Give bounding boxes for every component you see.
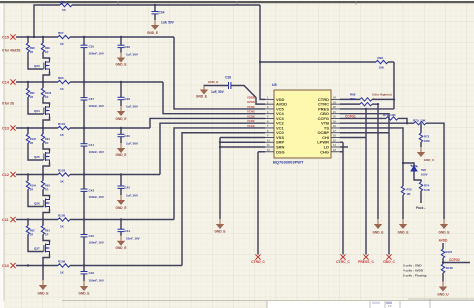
port CBO_C xyxy=(386,254,391,259)
svg-text:DSG: DSG xyxy=(276,149,285,154)
port PRESS_C xyxy=(363,254,368,259)
wire VDD top from C15 row xyxy=(34,5,60,37)
pin 20 CCFG xyxy=(331,117,340,119)
wire LD stub xyxy=(340,146,348,148)
capacitor C41 100nF 16V xyxy=(83,128,85,144)
svg-text:R71, 10K: R71, 10K xyxy=(383,113,397,117)
pin 5 VC3 xyxy=(265,117,274,119)
ground GND_E right outer xyxy=(440,219,448,229)
wire R70 to ground xyxy=(426,123,444,219)
wire cap chain to row C12 xyxy=(83,146,85,174)
svg-text:R74: R74 xyxy=(424,184,430,188)
op-amp U5 BQ7693003PWT battery monitor IC xyxy=(274,90,331,158)
svg-text:R100: R100 xyxy=(45,91,52,95)
svg-text:5V6: 5V6 xyxy=(421,168,426,172)
junction row C14 rail A xyxy=(27,81,29,83)
wire R71 down to VTB rail xyxy=(398,118,407,123)
wire C14 sense to pin VC4 xyxy=(163,82,265,114)
wire row C12 left xyxy=(16,174,58,176)
ground GND_E row C10 xyxy=(42,266,44,280)
port CTRD_C xyxy=(255,254,260,259)
wire VTB divider rail xyxy=(340,122,414,124)
svg-text:1R: 1R xyxy=(45,187,48,191)
svg-text:R94: R94 xyxy=(45,137,50,141)
pin 1 VDD xyxy=(265,98,274,100)
svg-text:1uF, 50V: 1uF, 50V xyxy=(126,105,138,109)
svg-text:Q26: Q26 xyxy=(34,202,40,206)
svg-text:Q27: Q27 xyxy=(34,247,40,251)
pin 2 AVDD xyxy=(265,103,274,105)
pin 21 CBO xyxy=(331,113,340,115)
wire VSS down to ground xyxy=(219,137,221,219)
svg-text:R101: R101 xyxy=(58,122,66,126)
svg-text:1R: 1R xyxy=(45,95,48,99)
svg-text:R106: R106 xyxy=(58,259,66,263)
wire zener to R74 xyxy=(414,172,421,183)
svg-text:GND_E: GND_E xyxy=(398,231,409,235)
svg-text:1R: 1R xyxy=(45,141,48,145)
wire CTRD select xyxy=(340,98,360,100)
svg-text:GND_E: GND_E xyxy=(196,95,207,99)
svg-text:R95: R95 xyxy=(30,91,35,95)
svg-text:GND_E: GND_E xyxy=(116,62,127,66)
wire gate link Q23 xyxy=(28,52,44,69)
resistor R99 1R balance right gap1 xyxy=(42,37,44,43)
resistor R70 10K xyxy=(414,122,426,125)
svg-text:BQ7693003PWT: BQ7693003PWT xyxy=(273,160,304,165)
junction VDD-R96 tap xyxy=(259,61,261,63)
svg-text:3 cells : GND: 3 cells : GND xyxy=(403,264,422,268)
port C11 cell input xyxy=(10,217,15,222)
svg-text:Pack -: Pack - xyxy=(416,206,425,210)
capacitor C36 1uF, 50V xyxy=(120,37,122,45)
transistor Q24 balance FET xyxy=(44,105,50,117)
junction row C14 filter cap xyxy=(120,81,122,83)
svg-text:C10: C10 xyxy=(2,264,9,268)
wire SRN xyxy=(220,146,265,148)
resistor R98 1R balance left gap1 xyxy=(27,37,29,43)
svg-text:GND_E: GND_E xyxy=(116,246,127,250)
resistor R100 1R balance right gap2 xyxy=(42,82,44,88)
wire row C11 right xyxy=(70,219,174,221)
svg-text:R105: R105 xyxy=(58,213,66,217)
pin 3 VC5 xyxy=(265,108,274,110)
junction row C11 filter cap xyxy=(120,218,122,220)
pin 6 VC2 xyxy=(265,122,274,124)
wire cap chain to row C13 xyxy=(83,100,85,128)
svg-text:VC2B: VC2B xyxy=(247,119,254,123)
wire PRES to port xyxy=(340,108,394,110)
pin 4 VC4 xyxy=(265,113,274,115)
junction row C13 cap chain xyxy=(83,127,85,129)
pin 18 TS xyxy=(331,127,340,129)
resistor R108 1K xyxy=(441,264,444,273)
wire C10 sense to pin VC0 xyxy=(182,133,265,266)
pin 23 CTRC xyxy=(331,103,340,105)
svg-text:GND_E: GND_E xyxy=(208,80,218,84)
wire C13 sense to pin VC3 xyxy=(150,118,265,128)
capacitor C42 1uF, 50V xyxy=(120,175,122,187)
wire gate link Q26 xyxy=(28,190,44,207)
wire drain Q24 xyxy=(43,97,50,105)
svg-text:1R: 1R xyxy=(30,95,33,99)
svg-text:Q23: Q23 xyxy=(34,64,40,68)
junction row C12 cap chain xyxy=(83,173,85,175)
junction row C10 rail A xyxy=(27,264,29,266)
net label CCFG1 xyxy=(340,117,386,119)
svg-text:GND_E: GND_E xyxy=(215,230,226,234)
wire top VDD rail xyxy=(72,4,260,6)
pin 13 CHG xyxy=(331,151,340,153)
resistor R68 0R xyxy=(360,98,372,101)
svg-text:C14: C14 xyxy=(2,81,10,85)
svg-text:10nF, 16V: 10nF, 16V xyxy=(126,237,140,241)
svg-text:R92: R92 xyxy=(30,229,35,233)
resistor R106 1K row C10 xyxy=(58,264,70,267)
ground GND_E under C39 xyxy=(117,106,125,116)
resistor R96 10K xyxy=(376,60,388,63)
svg-text:R70, 10K: R70, 10K xyxy=(413,119,427,123)
svg-text:0 for 4S&5S: 0 for 4S&5S xyxy=(2,49,21,53)
resistor R74 8.2K xyxy=(419,182,422,191)
svg-text:R69: R69 xyxy=(350,97,356,101)
svg-text:10M: 10M xyxy=(424,139,430,143)
svg-text:C15: C15 xyxy=(2,36,9,40)
resistor R73 10M xyxy=(420,123,422,133)
svg-text:GND_E: GND_E xyxy=(79,292,90,296)
svg-text:1R: 1R xyxy=(30,232,33,236)
capacitor C39 1uF, 50V xyxy=(120,82,122,97)
pin 9 VSS xyxy=(265,136,274,138)
port C12 cell input xyxy=(10,172,15,177)
title block xyxy=(267,301,474,308)
pin 8 VC0 xyxy=(265,132,274,134)
wire CHG rail down xyxy=(342,142,344,254)
capacitor C34 1uF 50V xyxy=(154,5,156,11)
junction SRP rail xyxy=(219,141,221,143)
svg-text:R107: R107 xyxy=(446,250,453,254)
wire drain Q27 xyxy=(43,235,50,243)
svg-text:R93: R93 xyxy=(45,184,50,188)
capacitor C38 1uF 50V xyxy=(204,85,228,87)
wire C11 sense to pin VC1 xyxy=(174,128,265,220)
wire cap chain to row C14 xyxy=(83,48,85,82)
junction row C15 rail B xyxy=(42,36,44,38)
junction row C14 cap chain xyxy=(83,81,85,83)
resistor R90 1K row C14 xyxy=(58,80,70,83)
wire CBO to port xyxy=(340,114,389,255)
svg-text:5 cells : Floating: 5 cells : Floating xyxy=(403,274,427,278)
svg-text:C38: C38 xyxy=(225,76,231,80)
capacitor C45 100nF 16V xyxy=(83,220,85,235)
svg-text:0 for 3S: 0 for 3S xyxy=(2,102,15,106)
wire AVDD stub xyxy=(442,243,444,249)
svg-text:100nF, 16V: 100nF, 16V xyxy=(89,150,104,154)
svg-text:C12: C12 xyxy=(2,173,9,177)
junction row C13 rail B xyxy=(42,127,44,129)
svg-text:R67: R67 xyxy=(58,31,64,35)
svg-text:0 (for Highest): 0 (for Highest) xyxy=(372,92,392,96)
ground GND_E for C34 xyxy=(151,20,159,30)
wire source Q24 to next row xyxy=(43,117,50,129)
svg-text:C11: C11 xyxy=(2,218,9,222)
wire CHG to port CTRC_C xyxy=(340,151,343,153)
resistor R107 1K xyxy=(441,249,444,258)
wire gate link Q25 xyxy=(28,143,44,160)
svg-text:R99: R99 xyxy=(45,46,50,50)
resistor R94 1R balance right gap3 xyxy=(42,128,44,134)
wire down to ground inner xyxy=(377,104,379,219)
pin 19 VTB xyxy=(331,122,340,124)
resistor R103 1K row C12 xyxy=(58,173,70,176)
wire PRES down xyxy=(365,109,367,255)
pin 12 DSG xyxy=(265,151,274,153)
svg-text:GND_U: GND_U xyxy=(437,293,449,297)
svg-text:PRESS_C: PRESS_C xyxy=(358,260,374,264)
capacitor C35 100nF 16V xyxy=(83,37,85,45)
svg-text:CCFG2: CCFG2 xyxy=(449,258,460,262)
junction row C11 rail A xyxy=(27,218,29,220)
svg-text:100V: 100V xyxy=(421,173,428,177)
resistor R66 1K top xyxy=(60,3,72,6)
resistor R105 1K row C11 xyxy=(58,218,70,221)
pin 17 OCBP xyxy=(331,132,340,134)
svg-text:4 cells : AVDD: 4 cells : AVDD xyxy=(403,269,424,273)
transistor Q26 balance FET xyxy=(44,198,50,210)
port C15 cell input xyxy=(10,34,15,39)
junction R71-VTB xyxy=(406,122,408,124)
resistor R69 0R xyxy=(360,102,372,105)
wire row C13 left xyxy=(16,127,58,129)
junction row C15 filter cap xyxy=(120,36,122,38)
svg-text:8.2K: 8.2K xyxy=(424,188,430,192)
svg-text:C13: C13 xyxy=(2,127,9,131)
wire drain Q23 xyxy=(43,52,50,60)
svg-text:Q25: Q25 xyxy=(34,155,40,159)
ground GND_E under C40 xyxy=(117,143,125,153)
svg-text:C37: C37 xyxy=(89,97,95,101)
junction row C15 rail A xyxy=(27,36,29,38)
junction row C15 cap chain xyxy=(83,36,85,38)
junction top rail tap xyxy=(33,36,35,38)
wire AVDD to pin xyxy=(231,86,265,105)
svg-text:R91: R91 xyxy=(45,229,50,233)
wire row C11 left xyxy=(16,219,58,221)
junction row C11 rail B xyxy=(42,218,44,220)
svg-text:VC4B: VC4B xyxy=(247,110,254,114)
capacitor C46 100nF 16V bottom xyxy=(83,266,85,272)
svg-text:R66: R66 xyxy=(60,0,65,4)
svg-text:100nF, 16V: 100nF, 16V xyxy=(89,279,104,283)
wire VSS to ground rail xyxy=(220,136,265,138)
svg-text:C34: C34 xyxy=(159,11,165,15)
svg-text:C43: C43 xyxy=(89,188,95,192)
svg-text:C46: C46 xyxy=(89,271,95,275)
wire SRP xyxy=(220,141,265,143)
wire row C10 left xyxy=(16,265,58,267)
junction row C11 cap chain xyxy=(83,218,85,220)
svg-text:CHG: CHG xyxy=(320,149,329,154)
svg-text:100nF, 16V: 100nF, 16V xyxy=(89,241,104,245)
transistor Q27 balance FET xyxy=(44,243,50,255)
wire drain Q26 xyxy=(43,190,50,198)
svg-text:CTRC_C: CTRC_C xyxy=(336,260,350,264)
wire CTRC select xyxy=(340,103,360,105)
ground GND_E under C44 xyxy=(117,236,125,246)
svg-text:C42: C42 xyxy=(125,186,131,190)
ground GND_E under C42 xyxy=(117,195,125,205)
ground GND_E under C36 xyxy=(117,53,125,63)
svg-text:100nF, 16V: 100nF, 16V xyxy=(89,104,104,108)
ground GND_E mid xyxy=(399,219,407,229)
junction row C13 filter cap xyxy=(120,127,122,129)
junction C34 tap xyxy=(154,4,156,6)
svg-text:C36: C36 xyxy=(125,45,131,49)
wire TS branch xyxy=(340,128,403,186)
svg-text:GND_E: GND_E xyxy=(116,117,127,121)
svg-text:R90: R90 xyxy=(58,76,64,80)
wire OCBP tee to CBO rail xyxy=(340,132,389,134)
junction PRES xyxy=(365,108,367,110)
resistor R93 1R balance right gap4 xyxy=(42,175,44,181)
pin 16 CHI xyxy=(331,136,340,138)
svg-text:10K: 10K xyxy=(379,66,385,70)
capacitor C40 1uF, 50V xyxy=(120,128,122,134)
svg-text:R96: R96 xyxy=(378,56,384,60)
junction row C10 cap chain xyxy=(83,264,85,266)
junction CTRC node xyxy=(377,103,379,105)
svg-text:C40: C40 xyxy=(125,134,131,138)
svg-text:GND_E: GND_E xyxy=(38,292,49,296)
svg-text:GND_E: GND_E xyxy=(147,31,158,35)
transistor Q23 balance FET xyxy=(44,60,50,72)
svg-text:AVDD: AVDD xyxy=(247,100,255,104)
ground GND_U small xyxy=(417,147,425,157)
svg-text:GND_E: GND_E xyxy=(116,206,127,210)
capacitor C43 100nF 16V xyxy=(83,175,85,190)
pin 24 CTRD xyxy=(331,98,340,100)
wire row C13 right xyxy=(70,127,150,129)
wire row C15 right xyxy=(70,36,174,38)
pin 14 LD xyxy=(331,146,340,148)
ground GND_E for C38 xyxy=(200,85,208,95)
ground GND_U bottom right xyxy=(439,282,447,292)
svg-text:VC5B: VC5B xyxy=(247,105,254,109)
ground GND_E for VSS xyxy=(216,219,224,229)
junction row C10 rail B xyxy=(42,264,44,266)
svg-text:VDDB: VDDB xyxy=(247,95,255,99)
svg-text:VC1B: VC1B xyxy=(247,124,254,128)
wire row C10 right xyxy=(70,265,182,267)
junction SRN rail xyxy=(219,146,221,148)
wire pull-up vertical xyxy=(393,62,395,109)
svg-text:R75: R75 xyxy=(407,188,413,192)
wire VDD rail down to pin VDD xyxy=(260,5,265,99)
junction row C12 filter cap xyxy=(120,173,122,175)
pin 22 PRES xyxy=(331,108,340,110)
svg-text:U5: U5 xyxy=(272,83,277,87)
svg-text:R104: R104 xyxy=(30,184,37,188)
pin 10 SRP xyxy=(265,141,274,143)
svg-text:C39: C39 xyxy=(125,97,131,101)
svg-text:1R: 1R xyxy=(45,50,48,54)
svg-text:1R: 1R xyxy=(30,141,33,145)
svg-text:C41: C41 xyxy=(89,143,95,147)
capacitor C37 100nF 16V xyxy=(83,82,85,98)
svg-text:100nF, 16V: 100nF, 16V xyxy=(89,51,104,55)
wire cap chain to row C11 xyxy=(83,191,85,219)
svg-text:100nF, 16V: 100nF, 16V xyxy=(89,195,104,199)
resistor R71 10K xyxy=(386,117,398,120)
wire row C12 right xyxy=(70,174,160,176)
svg-text:R68: R68 xyxy=(350,92,356,96)
port C14 cell input xyxy=(10,79,15,84)
svg-text:C45: C45 xyxy=(89,234,95,238)
svg-text:C44: C44 xyxy=(125,229,131,233)
svg-text:CCFG1: CCFG1 xyxy=(345,115,356,119)
wire source Q25 to next row xyxy=(43,163,50,175)
wire gate link Q24 xyxy=(28,97,44,114)
ground GND_E inner xyxy=(374,219,382,229)
svg-text:R103: R103 xyxy=(58,168,66,172)
wire source Q23 to next row xyxy=(43,72,50,83)
wire CHI tee to PRES rail xyxy=(340,136,366,138)
ground GND_E under C46 xyxy=(80,281,88,291)
svg-text:1uF, 50V: 1uF, 50V xyxy=(126,142,138,146)
svg-text:Q24: Q24 xyxy=(34,109,40,113)
resistor R102 1R balance left gap3 xyxy=(27,128,29,134)
svg-text:R98: R98 xyxy=(30,46,35,50)
wire C15 sense to pin VC5 xyxy=(174,37,265,109)
resistor R91 1R balance right gap5 xyxy=(42,220,44,226)
pin 7 VC1 xyxy=(265,127,274,129)
svg-text:1uF, 50V: 1uF, 50V xyxy=(161,21,175,25)
wire row C15 left xyxy=(16,36,58,38)
svg-text:R73: R73 xyxy=(424,135,430,139)
resistor R95 1R balance left gap2 xyxy=(27,82,29,88)
port C10 cell input xyxy=(10,263,15,268)
junction row C13 rail A xyxy=(27,127,29,129)
svg-text:GND_E: GND_E xyxy=(439,231,450,235)
wire source Q26 to next row xyxy=(43,209,50,220)
junction CCFG divider xyxy=(442,261,444,263)
resistor R67 1K row C15 xyxy=(58,35,70,38)
wire CCFG2 stub xyxy=(443,262,470,264)
port CTRC_C xyxy=(340,254,345,259)
svg-text:R108: R108 xyxy=(446,266,453,270)
wire source Q27 to next row xyxy=(43,254,50,266)
junction row C12 rail A xyxy=(27,173,29,175)
capacitor C44 10nF, 16V xyxy=(120,220,122,230)
resistor R104 1R balance left gap4 xyxy=(27,175,29,181)
svg-text:1uF, 50V: 1uF, 50V xyxy=(126,53,138,57)
port C13 cell input xyxy=(10,125,15,130)
wire row C14 left xyxy=(16,81,58,83)
transistor Q25 balance FET xyxy=(44,151,50,163)
junction zener tap xyxy=(402,162,404,164)
junction row C12 rail B xyxy=(42,173,44,175)
svg-text:CBO_C: CBO_C xyxy=(383,260,395,264)
junction CTRD pull-up xyxy=(393,98,395,100)
svg-text:VC3B: VC3B xyxy=(247,114,254,118)
svg-text:C35: C35 xyxy=(89,45,95,49)
wire DSG to port CTRD_C xyxy=(258,151,265,153)
svg-text:1R: 1R xyxy=(30,187,33,191)
svg-text:1M: 1M xyxy=(407,192,412,196)
wire drain Q25 xyxy=(43,143,50,151)
svg-text:R102: R102 xyxy=(30,137,37,141)
svg-text:1uF, 50V: 1uF, 50V xyxy=(211,90,225,94)
